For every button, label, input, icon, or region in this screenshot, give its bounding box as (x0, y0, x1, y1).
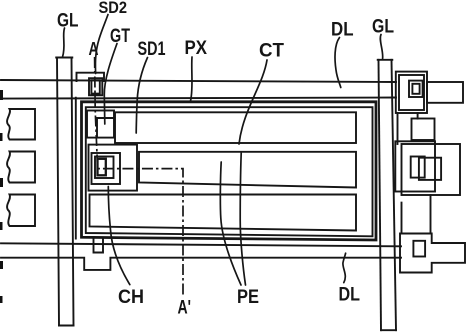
svg-text:CT: CT (259, 41, 284, 62)
svg-text:GL: GL (57, 11, 79, 32)
svg-text:SD1: SD1 (138, 39, 166, 60)
svg-text:DL: DL (339, 285, 361, 306)
svg-text:GT: GT (110, 26, 130, 47)
svg-text:A': A' (178, 298, 192, 319)
svg-text:GL: GL (372, 17, 394, 38)
svg-text:SD2: SD2 (99, 0, 128, 17)
svg-text:PX: PX (185, 38, 208, 59)
svg-text:PE: PE (237, 287, 259, 308)
svg-text:CH: CH (118, 287, 144, 308)
svg-text:DL: DL (331, 20, 354, 41)
svg-text:A: A (89, 39, 99, 59)
